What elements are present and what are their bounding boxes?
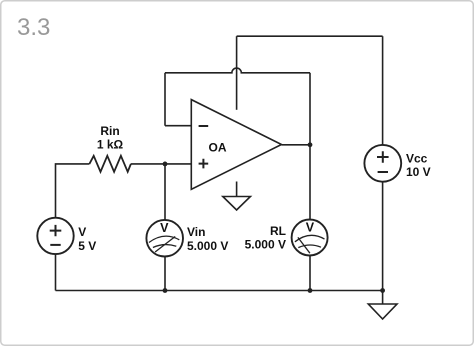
wire op-amp V- stub	[236, 182, 238, 197]
svg-text:V: V	[78, 225, 86, 239]
wire bottom ground rail	[56, 290, 383, 292]
svg-text:V: V	[160, 221, 169, 235]
voltmeter Vin	[146, 220, 228, 257]
wire op-amp V+ stub	[236, 36, 238, 110]
wire inverting input	[165, 125, 191, 127]
svg-text:V: V	[306, 220, 315, 234]
node output junction	[308, 142, 313, 147]
svg-text:RL: RL	[270, 224, 286, 238]
voltmeter RL	[245, 220, 328, 256]
ground main	[368, 304, 397, 319]
svg-text:Vcc: Vcc	[406, 151, 428, 165]
node RL bottom junction	[308, 288, 313, 293]
wire Vcc bottom vertical	[382, 182, 384, 304]
svg-text:Rin: Rin	[100, 124, 119, 138]
wire feedback left vertical	[164, 73, 166, 126]
svg-text:5.000 V: 5.000 V	[187, 239, 228, 253]
wire top supply horizontal	[237, 35, 383, 37]
node noninverting input junction	[163, 162, 168, 167]
op-amp OA	[191, 100, 281, 190]
wire RL meter bottom	[309, 255, 311, 290]
ground op-amp negative supply	[223, 197, 251, 211]
wire Vin meter top	[164, 164, 166, 220]
wire noninverting input	[131, 163, 191, 165]
svg-text:5 V: 5 V	[78, 239, 96, 253]
wire op-amp output	[282, 144, 311, 146]
wire feedback right vertical	[309, 73, 311, 145]
voltage source V	[37, 218, 96, 254]
wire RL meter top	[309, 145, 311, 220]
wire Vin meter bottom	[164, 257, 166, 291]
svg-text:OA: OA	[209, 140, 227, 154]
wire right vertical to Vcc top	[382, 36, 384, 145]
node ground junction	[380, 288, 385, 293]
voltage source Vcc	[364, 145, 430, 182]
wire feedback top horizontal with hop	[165, 68, 310, 73]
resistor Rin	[89, 156, 130, 172]
svg-text:1 kΩ: 1 kΩ	[97, 138, 124, 152]
wire V source bottom	[55, 254, 57, 290]
svg-text:3.3: 3.3	[17, 14, 50, 41]
svg-text:Vin: Vin	[187, 225, 205, 239]
node Vin bottom junction	[163, 288, 168, 293]
svg-text:5.000 V: 5.000 V	[245, 238, 286, 252]
svg-text:10 V: 10 V	[406, 165, 431, 179]
wire V source top and resistor left	[56, 164, 90, 218]
